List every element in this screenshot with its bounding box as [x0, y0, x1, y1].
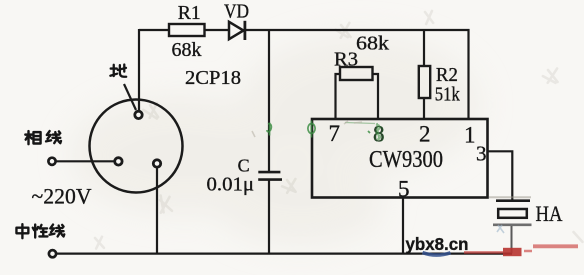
svg-text:R3: R3	[334, 49, 358, 71]
svg-text:ybx8.cn: ybx8.cn	[406, 234, 469, 254]
socket left pin	[115, 158, 122, 165]
svg-text:R1: R1	[178, 2, 201, 24]
HA lower lead	[511, 226, 513, 253]
value 0.01u	[207, 174, 255, 196]
diode VD	[229, 21, 245, 40]
watermark gray characters	[90, 8, 584, 252]
green watermark scribbles	[267, 121, 385, 147]
label 2CP18	[185, 67, 241, 89]
value 68k (R3)	[356, 33, 390, 55]
resistor R2 branch top wire	[423, 29, 425, 66]
label VD	[224, 1, 249, 23]
svg-text:VD: VD	[224, 1, 249, 23]
wire R1 to VD	[205, 29, 230, 31]
svg-text:68k: 68k	[172, 39, 203, 61]
pin 1	[464, 122, 476, 147]
label 相线 (phase line)	[25, 131, 40, 144]
label ~220V	[32, 184, 92, 209]
op-amp U1 CW9300 box	[312, 119, 488, 198]
svg-text:8: 8	[373, 122, 385, 147]
svg-text:51k: 51k	[435, 84, 461, 106]
neutral bottom wire	[56, 253, 512, 255]
R2 to pin2 wire	[423, 98, 425, 119]
buzzer HA	[493, 201, 532, 225]
pin 5	[398, 176, 410, 201]
label R2	[436, 64, 458, 86]
wire top-left corner down to socket earth pin	[138, 29, 140, 111]
svg-text:3: 3	[476, 141, 487, 165]
svg-text:0.01μ: 0.01μ	[207, 174, 255, 196]
red watermark marks	[464, 246, 578, 256]
neutral terminal circle	[49, 250, 56, 257]
resistor R1	[169, 24, 205, 36]
svg-text:~220V: ~220V	[32, 184, 92, 209]
blue swoosh	[423, 253, 451, 256]
label R3	[334, 49, 358, 71]
label C	[238, 156, 250, 176]
capacitor branch upper wire	[268, 30, 270, 171]
svg-text:1: 1	[464, 122, 476, 147]
svg-text:68k: 68k	[356, 33, 390, 55]
watermark ybx8.cn	[406, 234, 469, 254]
label R1	[178, 2, 201, 24]
pin 7	[329, 121, 341, 146]
pin1 branch wire	[467, 29, 469, 119]
phase terminal circle	[48, 158, 55, 165]
value 68k (R1)	[172, 39, 203, 61]
resistor R3 leads	[336, 74, 379, 119]
svg-text:2: 2	[419, 121, 431, 146]
resistor R2	[419, 66, 430, 98]
socket earth pin	[135, 111, 142, 118]
resistor R3	[340, 67, 373, 80]
top wire VD to pin1 branch	[246, 29, 470, 31]
label 中性线 (neutral line)	[16, 224, 28, 238]
pin 5 wire to neutral	[402, 198, 404, 254]
svg-text:C: C	[238, 156, 250, 176]
svg-text:CW9300: CW9300	[369, 146, 443, 173]
socket right pin	[153, 160, 160, 167]
pin 2	[419, 121, 431, 146]
capacitor C	[258, 172, 282, 180]
pin 3 wire	[487, 151, 512, 199]
socket right pin wire down to neutral	[156, 168, 158, 254]
pin 3	[476, 141, 487, 165]
svg-text:7: 7	[329, 121, 341, 146]
top wire left segment	[139, 29, 169, 31]
value 51k	[435, 84, 461, 106]
socket circle	[90, 100, 183, 193]
label CW9300	[369, 146, 443, 173]
svg-text:2CP18: 2CP18	[185, 67, 241, 89]
capacitor branch lower wire	[268, 180, 270, 253]
phase wire	[56, 160, 115, 162]
earth pointer line	[124, 84, 136, 110]
svg-text:HA: HA	[536, 201, 563, 226]
label 地 (earth)	[110, 65, 126, 77]
faint gray scribbles near pins	[252, 121, 504, 233]
pin 8	[373, 121, 385, 146]
label HA	[536, 201, 563, 226]
